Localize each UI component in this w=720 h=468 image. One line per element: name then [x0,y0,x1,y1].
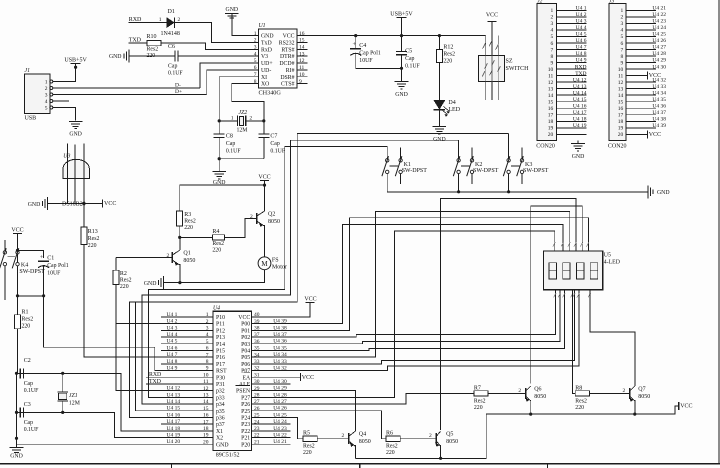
wire K1 left pole bottom to rail [386,174,388,192]
ground GND (J2) [571,143,585,145]
svg-text:P17: P17 [216,362,225,368]
svg-text:U4 6: U4 6 [167,345,178,351]
svg-text:0.1UF: 0.1UF [226,148,241,154]
wire K1 right pole stubs [400,148,402,159]
svg-text:D1: D1 [168,9,175,15]
svg-text:CTS#: CTS# [281,82,295,88]
svg-text:RI#: RI# [286,68,295,74]
wire C2 rail [17,372,63,374]
svg-text:U4 8: U4 8 [576,51,587,57]
svg-text:Q1: Q1 [183,251,190,257]
svg-text:Res2: Res2 [88,236,100,242]
svg-text:P30: P30 [216,375,225,381]
svg-text:18: 18 [548,119,554,125]
svg-text:P26: P26 [241,402,250,408]
U5 top pin ticks [553,242,555,247]
svg-text:Res2: Res2 [575,398,587,404]
sensor U3 DS18B20 [63,159,89,178]
SZ switch actuator hatches [483,43,486,49]
svg-text:P07: P07 [241,369,250,375]
wire P01 to U5 (over top) [252,218,589,331]
svg-text:Res2: Res2 [22,316,34,322]
svg-text:SW-DPST: SW-DPST [19,269,45,275]
svg-text:14: 14 [548,93,554,99]
svg-text:1: 1 [159,17,162,23]
svg-text:2: 2 [518,388,521,394]
svg-text:0.1UF: 0.1UF [270,148,285,154]
svg-text:U4 16: U4 16 [167,412,181,418]
svg-text:U4 3: U4 3 [167,325,178,331]
transistor Q2 8050 [256,213,258,224]
svg-text:DS18B20: DS18B20 [62,202,86,208]
ground GND (bottom left) [16,444,18,447]
svg-text:U4 15: U4 15 [573,97,587,103]
svg-text:U4 5: U4 5 [167,339,178,345]
wire J2 pin20 to GND [577,140,579,143]
svg-text:DCD#: DCD# [279,61,294,67]
wire R10 to U1 RxD pin3 [161,43,252,49]
svg-text:7: 7 [621,47,624,53]
svg-text:USB+5V: USB+5V [390,12,413,18]
wire TXD to R10 [129,42,148,44]
svg-text:220: 220 [474,405,483,411]
wire Q5 collector to U5 (over top) [441,198,576,430]
wire U3 data to R13 [82,202,85,205]
capacitor C2 Cap 0.1UF [19,368,21,378]
svg-text:D-: D- [175,83,181,89]
sheet border bottom [0,463,720,465]
svg-text:Cap: Cap [405,56,414,62]
capacitor C1 Cap Pol1 10UF [38,260,49,262]
transistor Q4 8050 [348,433,350,444]
power VCC (SZ) [488,21,497,23]
power VCC (K4) [13,233,22,235]
svg-text:Q4: Q4 [359,432,366,438]
wire bus to U4 p36 [130,302,213,417]
svg-text:Res2: Res2 [184,219,196,225]
svg-text:Cap: Cap [226,141,235,147]
svg-text:13: 13 [618,86,624,92]
svg-text:K4: K4 [21,263,28,269]
svg-text:1N4148: 1N4148 [161,31,180,37]
ground GND (crystal) [218,159,220,172]
svg-text:0.1UF: 0.1UF [168,70,183,76]
svg-text:7: 7 [551,47,554,53]
wire U5 to R8 [572,290,575,394]
svg-text:220: 220 [184,225,193,231]
svg-text:U4 27: U4 27 [273,399,287,405]
wire R7 to Q6 base [488,393,526,395]
svg-text:CON20: CON20 [536,144,555,150]
wire JZ1 bottom to U4 X2 [63,412,213,437]
wire K3 left pole bottom to rail [508,174,510,192]
svg-text:V3: V3 [261,54,268,60]
svg-text:220: 220 [120,284,129,290]
svg-text:220: 220 [303,450,312,456]
svg-text:SWITCH: SWITCH [506,66,530,72]
svg-text:2: 2 [342,433,345,439]
svg-text:89C51/52: 89C51/52 [216,452,240,458]
resistor R13 Res2 220 [81,227,87,244]
svg-text:R7: R7 [474,386,481,392]
wire K switch common rail to GND [387,191,648,193]
wire P06 jog to U5 bottom [252,290,575,364]
svg-text:R4: R4 [212,229,219,235]
power VCC (Q2) [260,179,269,181]
svg-text:U4 26: U4 26 [652,38,666,44]
SZ switch legs bottom [485,82,487,100]
svg-text:U4 7: U4 7 [576,45,587,51]
svg-text:P06: P06 [241,362,250,368]
IC U4 89C51/52 [213,311,252,450]
svg-text:2: 2 [622,388,625,394]
wire K4 to C1 top [18,250,44,258]
wire U4 P24 to R5 [290,417,303,438]
svg-text:U4 2: U4 2 [576,12,587,18]
wire bus K2 to U4 p34 [142,140,459,404]
svg-text:P04: P04 [241,349,250,355]
svg-text:C2: C2 [24,358,31,364]
svg-text:16: 16 [618,106,624,112]
svg-text:Res2: Res2 [474,398,486,404]
svg-text:Cap: Cap [168,64,177,70]
ground GND (K rail) [647,185,649,198]
svg-text:P05: P05 [241,355,250,361]
svg-text:10UF: 10UF [47,271,61,277]
svg-text:U4 30: U4 30 [652,64,666,70]
svg-text:U4 29: U4 29 [652,58,666,64]
svg-text:GND: GND [216,442,229,448]
svg-text:11: 11 [548,73,554,79]
wire branch to U4 P11 [116,323,213,325]
svg-text:GND: GND [144,281,157,287]
svg-text:3: 3 [45,92,48,98]
U4 right pin stub wires with net labels [252,443,291,445]
wire K2 left pole bottom to rail [458,174,460,192]
svg-text:U4 34: U4 34 [652,90,666,96]
svg-text:U4 28: U4 28 [652,51,666,57]
svg-text:220: 220 [575,405,584,411]
svg-text:6: 6 [551,41,554,47]
svg-text:J2: J2 [537,0,542,5]
svg-text:8: 8 [621,54,624,60]
svg-text:P10: P10 [216,315,225,321]
wire U1 pin16 VCC rail [308,35,356,37]
svg-text:U4 35: U4 35 [652,97,666,103]
wire Q4 emitter to rail [354,445,356,458]
svg-text:U4 13: U4 13 [167,392,181,398]
wire P04 to U5 (over top) [252,212,570,358]
svg-text:ALE: ALE [239,382,251,388]
SZ switch internal legs [485,56,487,82]
svg-text:P20: P20 [241,442,250,448]
wire RST net from K4/C1 [44,296,213,371]
resistor R7 Res2 220 [474,391,488,396]
capacitor C7 Cap 0.1UF [263,121,265,134]
svg-text:4-LED: 4-LED [604,260,620,266]
svg-text:RxD: RxD [261,47,272,53]
svg-text:C8: C8 [226,134,233,140]
svg-text:VCC: VCC [649,73,661,79]
svg-text:3: 3 [551,21,554,27]
svg-text:10: 10 [618,67,624,73]
svg-text:0.1UF: 0.1UF [405,64,420,70]
svg-text:R1: R1 [22,309,29,315]
wire K3 left pole top [508,134,510,159]
svg-text:20: 20 [548,132,554,138]
resistor R5 Res2 220 [303,436,317,441]
power VCC (J3 pin11) [646,72,648,80]
svg-text:RS232: RS232 [279,40,295,46]
svg-text:19: 19 [618,126,624,132]
svg-text:U4 29: U4 29 [273,386,287,392]
wire D- J1 pin2 [53,87,200,89]
svg-text:8050: 8050 [638,394,650,400]
wire K1 left pole top [386,146,388,159]
capacitor C5 Cap 0.1UF [401,36,403,52]
wire Q6 collector to U5 (over top) [531,206,583,384]
svg-text:2: 2 [621,15,624,21]
svg-text:U4 38: U4 38 [652,117,666,123]
svg-text:C7: C7 [270,134,277,140]
wire R6 to Q5 base [400,438,436,440]
svg-text:220: 220 [22,323,31,329]
switch K1 SW-DPST [386,159,389,162]
wire R8 to Q7 base [590,393,630,395]
svg-text:U4 4: U4 4 [576,25,587,31]
resistor R8 Res2 220 [575,391,589,396]
connector J2 CON20 [537,3,556,140]
svg-text:U4 39: U4 39 [652,123,666,129]
switch K3 SW-DPST [507,159,510,162]
resistor R4 Res2 220 [180,236,213,238]
svg-text:p32: p32 [216,389,225,395]
svg-text:XI: XI [261,75,267,81]
svg-text:U4 21: U4 21 [273,439,287,445]
svg-text:Res2: Res2 [443,51,455,57]
svg-text:GND: GND [572,154,585,160]
svg-text:18: 18 [618,119,624,125]
svg-text:p35: p35 [216,409,225,415]
svg-text:USB: USB [25,116,37,122]
EA overline [244,371,251,373]
svg-text:P00: P00 [241,322,250,328]
svg-text:8050: 8050 [446,439,458,445]
svg-text:X1: X1 [216,429,223,435]
wire XI pin7 to JZ2 [219,77,251,121]
svg-text:1: 1 [551,8,554,14]
svg-text:U4 5: U4 5 [576,32,587,38]
svg-text:12: 12 [548,80,554,86]
wire K2 left pole top [458,140,460,158]
svg-text:U4 24: U4 24 [652,25,666,31]
svg-text:U1: U1 [259,23,266,29]
svg-text:VCC: VCC [283,34,295,40]
svg-text:RXD: RXD [149,372,161,378]
svg-text:TXD: TXD [149,379,161,385]
svg-text:U4 7: U4 7 [167,352,178,358]
wire C4 bottom to C5 bottom [356,67,402,69]
svg-text:P13: P13 [216,335,225,341]
svg-text:U4 8: U4 8 [167,359,178,365]
svg-text:U4: U4 [213,305,220,312]
svg-text:U4 24: U4 24 [273,419,287,425]
svg-text:8050: 8050 [534,394,546,400]
wire R13 to U4 P16 [84,244,213,357]
resistor R1 Res2 220 [17,296,19,315]
svg-text:0.1UF: 0.1UF [24,427,39,433]
svg-text:220: 220 [88,243,97,249]
svg-text:CH340G: CH340G [259,89,282,96]
svg-text:RST: RST [216,369,227,375]
svg-text:M: M [261,260,268,268]
LED D4 [434,100,446,110]
svg-text:U4 37: U4 37 [652,110,666,116]
svg-text:19: 19 [548,126,554,132]
wire J1 pin4 stub [53,100,69,102]
svg-text:U4 9: U4 9 [576,58,587,64]
svg-text:P22: P22 [241,429,250,435]
svg-text:P31: P31 [216,382,225,388]
wire Q7 emitter to rail B [634,400,636,414]
transistor Q6 8050 [525,388,527,399]
svg-text:RXD: RXD [575,64,587,70]
svg-text:10: 10 [548,67,554,73]
svg-text:U5: U5 [604,252,611,258]
wire crystal caps to GND [219,158,264,160]
svg-text:GND: GND [395,92,408,98]
connector J3 CON20 [609,3,626,140]
svg-text:9: 9 [551,60,554,66]
svg-text:2: 2 [45,86,48,92]
svg-text:R3: R3 [184,212,191,218]
svg-text:P16: P16 [216,355,225,361]
svg-text:P14: P14 [216,342,225,348]
svg-text:220: 220 [443,58,452,64]
svg-text:p36: p36 [216,416,225,422]
power VCC (J3 pin20) [646,130,648,138]
wire bus K1 to U4 p33 [148,146,387,397]
wire VCC to R3 [180,185,265,211]
wire P27 to U5 (over top) [252,231,555,397]
power VCC (rail B) [678,402,680,410]
wire J1 pin1 to USB+5V [53,67,76,81]
display U5 4-LED [544,251,603,290]
svg-text:14: 14 [618,93,624,99]
svg-text:P23: P23 [241,422,250,428]
svg-text:p33: p33 [216,395,225,401]
svg-text:Q5: Q5 [446,432,453,438]
wire VCC rail top [356,35,486,37]
svg-text:U4 25: U4 25 [273,412,287,418]
svg-text:+: + [40,255,44,261]
svg-text:P25: P25 [241,409,250,415]
svg-text:Cap Pol1: Cap Pol1 [359,50,381,56]
svg-text:VCC: VCC [104,201,116,207]
svg-text:D+: D+ [175,89,182,95]
wire GND rail to U4 pin20 [17,412,214,444]
svg-text:U4 25: U4 25 [652,32,666,38]
connector J1 USB [25,74,51,114]
svg-text:P01: P01 [241,328,250,334]
wire U5 to Q7 collector [590,290,635,386]
svg-text:10UF: 10UF [359,58,373,64]
wire P07 jog to U5 bottom [252,290,579,371]
svg-text:X2: X2 [216,436,223,442]
svg-text:XO: XO [261,82,269,88]
svg-text:VCC: VCC [649,132,661,138]
wire K4 left pole stubs [4,240,6,251]
svg-text:SZ: SZ [506,59,513,65]
svg-text:U4 15: U4 15 [167,406,181,412]
power VCC (U4 EA pin31) [252,376,301,378]
svg-text:15: 15 [548,100,554,106]
svg-text:CON20: CON20 [608,144,627,150]
power USB+5V (top) [397,16,407,18]
svg-text:U4 26: U4 26 [273,406,287,412]
svg-text:USB+5V: USB+5V [64,58,87,64]
svg-text:U4 14: U4 14 [167,399,181,405]
wire GND-U3-VCC [47,203,102,205]
svg-text:220: 220 [386,450,395,456]
svg-text:GND: GND [261,34,274,40]
wire UD- pin6 to D+ [207,70,252,95]
resistor R6 Res2 220 [386,436,400,441]
svg-text:U4 12: U4 12 [573,77,587,83]
svg-text:Cap: Cap [270,141,279,147]
svg-text:UD+: UD+ [261,61,273,67]
svg-text:5: 5 [45,105,48,111]
svg-text:12: 12 [618,80,624,86]
wire bus K3 to U4 p35 [136,134,509,411]
power VCC (U3) [102,200,104,208]
svg-text:U4 2: U4 2 [167,319,178,325]
svg-text:P03: P03 [241,342,250,348]
svg-text:220: 220 [212,248,221,254]
wire R4 to Q2 base [225,219,257,238]
crystal JZ2 12M [218,119,221,122]
svg-text:U4 30: U4 30 [273,379,287,385]
transistor Q7 8050 [629,388,631,399]
wire D4 to GND [438,110,440,127]
capacitor C6 Cap 0.1UF [174,50,176,61]
svg-text:GND: GND [657,190,670,196]
svg-text:DSR#: DSR# [280,75,294,81]
svg-text:13: 13 [548,86,554,92]
svg-text:U4 1: U4 1 [167,312,178,318]
svg-text:U4 9: U4 9 [167,366,178,372]
svg-text:RTS#: RTS# [281,47,294,53]
svg-text:PSEN: PSEN [236,389,251,395]
svg-text:U4 19: U4 19 [573,123,587,129]
svg-text:P21: P21 [241,436,250,442]
transistor Q1 8050 [171,252,173,263]
wire GND to C6 [129,55,175,57]
wire emitter rail B to VCC [486,406,679,414]
svg-text:VCC: VCC [304,297,316,303]
wire R1 to GND rail [17,329,19,374]
svg-text:R10: R10 [147,34,157,40]
svg-text:U4 6: U4 6 [576,38,587,44]
svg-text:R2: R2 [120,271,127,277]
svg-text:16: 16 [548,106,554,112]
wire RXD to D1 [129,22,167,24]
resistor R2 Res2 220 [115,258,117,271]
svg-text:R8: R8 [575,386,582,392]
svg-text:GND: GND [226,7,239,13]
svg-text:C6: C6 [168,44,175,50]
svg-text:1: 1 [621,8,624,14]
